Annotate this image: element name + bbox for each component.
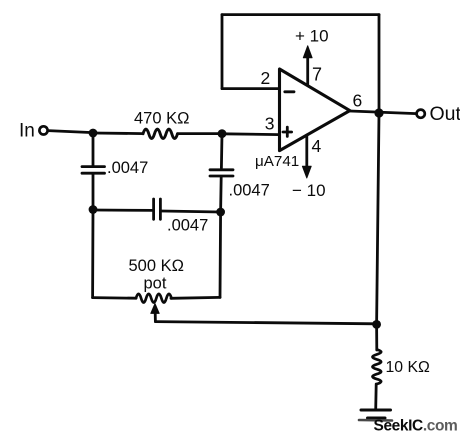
wire node C to capacitor C3 [93, 209, 152, 212]
wire feedback left vertical [221, 15, 224, 89]
wire resistor R1 to node B [178, 132, 223, 135]
wire node A to resistor R1 [93, 132, 143, 135]
svg-text:In: In [19, 121, 35, 142]
svg-text:500 KΩ: 500 KΩ [129, 257, 184, 275]
wire feedback right vertical to node E [378, 15, 381, 113]
wire op-amp output pin 6 to Out [350, 111, 417, 114]
svg-text:Out: Out [430, 103, 460, 125]
wire In terminal to node A [48, 131, 93, 133]
node E junction [374, 108, 383, 117]
node D junction [216, 208, 225, 217]
wire feedback top [222, 13, 379, 16]
svg-text:.0047: .0047 [167, 217, 208, 235]
wire wiper to node F [155, 322, 376, 324]
potentiometer wiper arrow [151, 304, 159, 314]
op-amp plus sign [283, 127, 292, 136]
wire node A down to capacitor C1 [92, 133, 95, 166]
node A junction [89, 129, 98, 138]
wire node C down to potentiometer left end [91, 210, 94, 298]
svg-text:− 10: − 10 [292, 181, 326, 200]
resistor R1 470 K ohm [143, 129, 178, 139]
ground [361, 410, 391, 418]
pin 4 supply arrow [305, 135, 308, 167]
svg-text:μA741: μA741 [255, 153, 299, 170]
wire capacitor C1 to node C [92, 174, 95, 210]
svg-text:.0047: .0047 [107, 159, 148, 177]
node F junction [372, 320, 381, 329]
svg-text:6: 6 [353, 91, 363, 111]
wire node F to resistor R2 [375, 324, 378, 350]
svg-text:10 KΩ: 10 KΩ [386, 359, 430, 376]
resistor R2 10 K ohm [372, 350, 381, 385]
svg-text:.0047: .0047 [229, 182, 270, 200]
op-amp minus sign [285, 90, 294, 93]
wire resistor R2 to ground [374, 384, 377, 410]
svg-text:3: 3 [265, 114, 275, 134]
svg-text:+ 10: + 10 [295, 26, 329, 45]
wire potentiometer left lead [93, 296, 136, 299]
pin 7 supply arrow [306, 58, 309, 85]
wire node E down to node F [377, 113, 379, 324]
wire capacitor C2 to node D [219, 176, 222, 212]
potentiometer R3 500 K ohm body [136, 294, 172, 303]
svg-text:pot: pot [144, 275, 167, 293]
node In terminal [39, 126, 47, 134]
wire pin 2 to feedback [222, 87, 280, 90]
wire wiper stem [154, 313, 157, 322]
wire node B to op-amp pin 3 [222, 132, 280, 136]
watermark strike dash [359, 419, 392, 422]
wire capacitor C3 to node D [162, 211, 221, 212]
node C junction [89, 205, 98, 214]
svg-text:SeekIC.com: SeekIC.com [374, 418, 458, 435]
svg-text:470 KΩ: 470 KΩ [134, 110, 189, 128]
capacitor C2 .0047 [210, 170, 233, 176]
node B junction [218, 129, 227, 138]
node Out terminal [417, 110, 425, 118]
svg-text:2: 2 [261, 68, 271, 88]
svg-text:7: 7 [312, 64, 322, 84]
wire node B down to capacitor C2 [220, 134, 223, 168]
capacitor C3 .0047 (series) [154, 199, 161, 219]
wire potentiometer right lead [171, 296, 220, 300]
wire node D down to potentiometer right end [219, 212, 222, 297]
op-amp U1 triangle [280, 69, 350, 151]
capacitor C1 .0047 [82, 167, 105, 174]
svg-text:4: 4 [312, 136, 322, 156]
